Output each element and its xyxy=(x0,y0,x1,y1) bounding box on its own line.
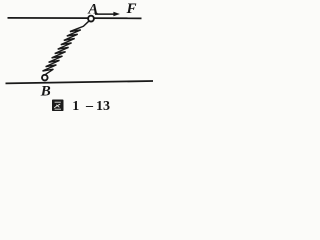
ring A xyxy=(88,16,94,22)
svg-text:–: – xyxy=(85,98,94,113)
ring B xyxy=(42,75,48,81)
svg-text:1: 1 xyxy=(72,99,79,114)
background xyxy=(0,0,156,114)
bottom surface line xyxy=(6,81,154,83)
svg-text:13: 13 xyxy=(96,99,110,114)
svg-text:B: B xyxy=(40,84,51,100)
svg-text:F: F xyxy=(126,1,137,17)
force arrow F shaft xyxy=(95,13,115,15)
spring S1 xyxy=(43,21,89,74)
top surface line xyxy=(8,17,142,19)
force arrow F head xyxy=(113,12,120,16)
svg-text:A: A xyxy=(87,1,98,17)
caption hanzi TU (figure) drawn as glyph xyxy=(52,100,64,112)
